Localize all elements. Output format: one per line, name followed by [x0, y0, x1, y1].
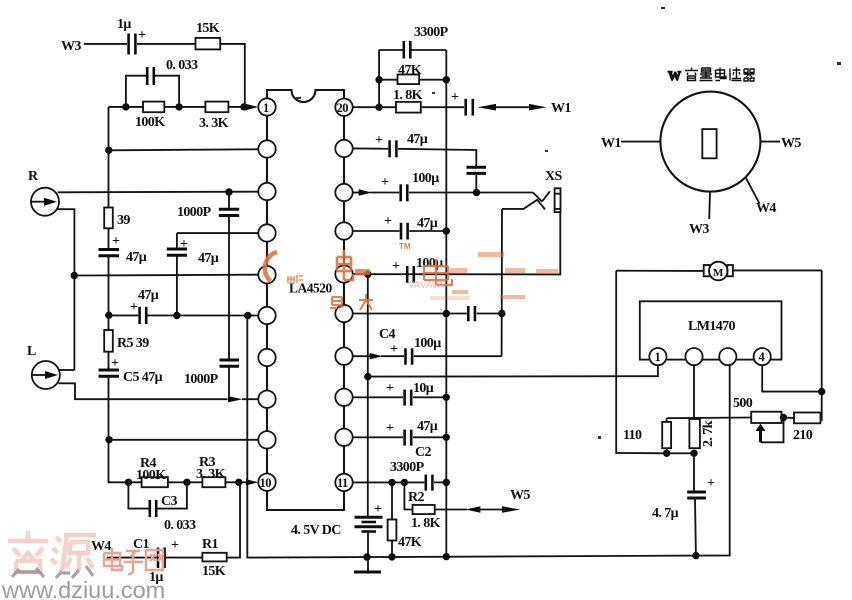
junction 47u stem on pin6 row — [173, 312, 180, 319]
junction x446 at ground — [443, 553, 450, 560]
svg-text:47K: 47K — [398, 63, 422, 78]
svg-text:+: + — [392, 259, 400, 274]
junction R4 row left — [125, 479, 132, 486]
resistor R4 100K — [128, 456, 248, 487]
svg-text:47μ: 47μ — [417, 419, 438, 434]
svg-text:W1: W1 — [601, 136, 621, 151]
svg-text:+: + — [180, 237, 188, 252]
capacitor C3 0.033 — [128, 482, 196, 533]
resistor 3.3K (top left) — [199, 102, 229, 131]
wire pin 9 row — [109, 439, 258, 441]
arrow into pin 10 — [246, 479, 258, 485]
pin 4 — [258, 224, 275, 241]
wire pin 11 row — [353, 481, 425, 483]
junction left bus pin5 — [71, 272, 78, 279]
capacitor 3300P (pin 11) — [390, 460, 446, 491]
svg-text:LA4520: LA4520 — [289, 281, 333, 296]
svg-text:1. 8K: 1. 8K — [411, 516, 441, 531]
capacitor 47u (pin 17) — [353, 214, 447, 240]
junction 3300P right — [443, 479, 450, 486]
capacitor 47u (horizontal, pin 6 row) — [105, 288, 258, 324]
svg-text:+: + — [171, 538, 179, 553]
svg-text:R5 39: R5 39 — [117, 336, 149, 351]
potentiometer 500 — [733, 396, 784, 442]
junction 47K left — [375, 76, 382, 83]
junction pin16 node (battery + rail) — [364, 271, 371, 278]
svg-text:100K: 100K — [135, 115, 165, 130]
pin 15 — [335, 305, 352, 322]
svg-text:3. 3K: 3. 3K — [196, 467, 226, 482]
resistor 1.8K (pin 20) — [393, 88, 423, 113]
svg-text:100μ: 100μ — [416, 256, 443, 271]
junction pin20 node — [375, 104, 382, 111]
resistor 47K (top) — [379, 63, 446, 84]
capacitor 1000P (lower) — [184, 360, 239, 387]
svg-text:W1: W1 — [551, 101, 571, 116]
junction R4/R3 — [183, 479, 190, 486]
pin 7 — [258, 349, 275, 366]
svg-text:500: 500 — [733, 396, 753, 411]
arrow pair to node W5 — [435, 488, 531, 513]
svg-text:2. 7k: 2. 7k — [701, 420, 716, 447]
wire jack switch down to C4 row — [501, 209, 503, 356]
pin 18 — [335, 184, 352, 201]
svg-text:100μ: 100μ — [412, 171, 439, 186]
junction battery at ground rail — [363, 553, 370, 560]
capacitor C2 47u (pin 12) — [353, 419, 447, 460]
resistor 210 — [782, 413, 822, 444]
svg-text:4. 5V DC: 4. 5V DC — [291, 523, 341, 538]
junction R2 top — [401, 479, 408, 486]
resistor 39 (R channel) — [104, 208, 130, 229]
wire 15K down to pin1 node — [220, 44, 245, 107]
wire 110 bottom row to 2.7k — [667, 452, 694, 454]
junction 47K top — [388, 479, 395, 486]
svg-text:100μ: 100μ — [414, 336, 441, 351]
arrow into pin 1 — [246, 104, 259, 111]
resistor R2 1.8K — [404, 482, 440, 531]
resistor 110 — [623, 418, 671, 453]
wire pin 20 to 1.8K node — [353, 106, 396, 108]
wire W4 to C1 — [107, 557, 157, 559]
wire pin 5 row — [74, 274, 258, 277]
pin 6 — [258, 307, 275, 324]
wire feedback row y107 — [109, 106, 245, 108]
svg-text:47K: 47K — [398, 535, 422, 550]
junction pin15 row at x502 — [498, 310, 505, 317]
op-amp U2 LM1470 box — [640, 301, 782, 359]
svg-text:10: 10 — [260, 476, 272, 490]
capacitor 3300P (top) — [379, 25, 449, 59]
svg-text:15K: 15K — [202, 564, 226, 579]
svg-text:1. 8K: 1. 8K — [393, 88, 423, 103]
resistor 100K (top left) — [135, 102, 165, 130]
svg-text:1: 1 — [655, 350, 661, 364]
capacitor 100u (pin 16) — [392, 256, 443, 283]
svg-text:+: + — [384, 214, 392, 229]
pin 13 — [335, 389, 352, 406]
battery 4.5V DC — [291, 502, 383, 557]
svg-text:100K: 100K — [136, 468, 166, 483]
junction pin1 node — [240, 103, 247, 110]
pin 5 — [258, 266, 275, 283]
junction pin17 row at x446 — [443, 227, 450, 234]
svg-text:4. 7μ: 4. 7μ — [652, 506, 679, 521]
svg-text:47μ: 47μ — [417, 216, 438, 231]
wire motor left down to resistor bottoms — [616, 271, 667, 454]
svg-text:XS: XS — [545, 169, 563, 184]
pin 1 (LM1470) — [649, 348, 666, 365]
pin 1 — [258, 98, 275, 115]
junction 4.7u at ground rail — [692, 552, 699, 559]
pin 9 — [258, 431, 275, 448]
wire left vertical x108.5 from feedback row down — [109, 107, 129, 482]
capacitor 4.7u — [652, 453, 715, 555]
wire C1u to R 15K — [137, 43, 196, 45]
svg-text:L: L — [27, 344, 36, 359]
wire R input to pin 3 — [58, 191, 259, 194]
capacitor 1u (top left) — [117, 17, 146, 55]
svg-text:W5: W5 — [781, 136, 801, 151]
svg-text:20: 20 — [337, 101, 349, 115]
scan specks — [296, 7, 841, 439]
node W3 lead — [689, 192, 710, 237]
pin 16 — [335, 265, 352, 282]
wire LM1470 pin4 to 210 right — [762, 365, 822, 391]
wire battery rail to LM1470 pin1 — [368, 274, 658, 517]
wire R lower lead down left bus — [58, 209, 75, 370]
svg-text:C3: C3 — [161, 494, 178, 509]
junction 500/210 — [780, 414, 787, 421]
arrow pair to node W1 — [478, 101, 572, 116]
junction pin12 row at x446 — [443, 434, 450, 441]
pin 19 — [335, 140, 352, 157]
svg-text:www.dziuu.com: www.dziuu.com — [1, 577, 165, 600]
junction — [122, 103, 129, 110]
svg-text:+: + — [138, 28, 146, 43]
capacitor 10u (pin 13) — [353, 381, 447, 406]
junction 47K right — [443, 76, 450, 83]
label W volume potentiometer (CJK strokes) — [668, 68, 755, 84]
svg-text:47μ: 47μ — [407, 132, 428, 147]
svg-text:15K: 15K — [196, 21, 220, 36]
pin 17 — [335, 222, 352, 239]
junction 110 bottom — [663, 450, 670, 457]
junction — [175, 103, 182, 110]
wire L lower lead to pin8 row — [59, 383, 228, 399]
wire ground drop x246.8 — [247, 316, 340, 558]
svg-text:11: 11 — [337, 476, 348, 490]
junction 47K at ground — [388, 553, 395, 560]
svg-text:47μ: 47μ — [198, 251, 219, 266]
resistor R3 3.3K — [196, 455, 226, 487]
junction rail at y376 — [364, 373, 371, 380]
pin 8 — [258, 391, 275, 408]
resistor R1 15K — [202, 537, 227, 579]
capacitor C4 100u (pin 14) — [379, 327, 502, 365]
capacitor (pin 15 row) — [353, 306, 502, 321]
svg-text:+: + — [451, 90, 459, 105]
wire W3 to C 1u — [84, 43, 127, 45]
svg-text:3. 3K: 3. 3K — [199, 116, 229, 131]
ground — [354, 557, 381, 572]
svg-text:M: M — [713, 267, 724, 279]
svg-text:+: + — [386, 381, 394, 396]
svg-text:1000P: 1000P — [184, 372, 219, 387]
capacitor 0.033 (top, parallel with 100K) — [126, 58, 198, 107]
wire C1 to R1 — [166, 557, 202, 559]
jack XS — [502, 169, 563, 212]
svg-text:W4: W4 — [756, 201, 776, 216]
capacitor C5 47u — [99, 356, 163, 385]
resistor 47K (bias) — [388, 482, 422, 556]
op-amp IC U1 LA4520 body — [267, 90, 344, 510]
capacitor to W1 — [451, 90, 473, 116]
svg-text:R1: R1 — [202, 537, 219, 552]
svg-text:W4: W4 — [91, 539, 111, 554]
svg-text:W: W — [668, 68, 681, 83]
svg-text:+: + — [390, 342, 398, 357]
capacitor 47u (pin 19) — [353, 132, 477, 166]
pin 12 — [335, 429, 352, 446]
junction pin9 row — [105, 436, 112, 443]
svg-text:TM: TM — [399, 242, 411, 251]
svg-text:0. 033: 0. 033 — [166, 58, 198, 73]
wire ground rail — [340, 365, 730, 557]
svg-text:47μ: 47μ — [138, 288, 159, 303]
wire jack sleeve down to pin16 row — [353, 212, 560, 274]
svg-text:W3: W3 — [61, 39, 81, 54]
watermark center (orange logo) — [265, 242, 558, 310]
capacitor 100u (pin 18) — [370, 171, 533, 201]
wire R1 up to pin10 node — [227, 482, 240, 557]
wire LM1470 pin2 to 2.7k — [693, 365, 695, 419]
wire motor right down to 210 — [821, 270, 823, 420]
node W4 lead — [746, 177, 777, 216]
svg-text:C5 47μ: C5 47μ — [123, 370, 163, 385]
resistor 2.7k — [689, 419, 716, 448]
svg-text:1000P: 1000P — [177, 205, 212, 220]
svg-text:3300P: 3300P — [390, 460, 425, 475]
pin 20 — [335, 99, 352, 116]
svg-text:1: 1 — [263, 101, 269, 115]
junction pin15 row at x446 — [443, 310, 450, 317]
wire x446 vertical (3300P right to ground) — [445, 50, 447, 557]
svg-text:210: 210 — [793, 428, 813, 443]
svg-text:+: + — [386, 421, 394, 436]
capacitor (pin19 node to pin18 line) — [467, 167, 487, 192]
pin 4 (LM1470) — [754, 348, 771, 365]
svg-text:0. 033: 0. 033 — [164, 518, 196, 533]
pin 11 — [335, 474, 352, 491]
arrow on pin 18 wire — [353, 189, 373, 195]
arrow into pin 8 — [228, 396, 243, 402]
pin 10 — [258, 474, 275, 491]
node L input — [27, 344, 60, 389]
svg-text:R2: R2 — [408, 490, 425, 505]
svg-text:W3: W3 — [689, 222, 709, 237]
pin 2 (LM1470) — [685, 348, 702, 365]
pin 3 (LM1470) — [719, 348, 736, 365]
capacitor C1 1u — [133, 537, 179, 585]
wire L upper lead to bus — [59, 369, 75, 371]
capacitor 47u (R channel, x108) — [99, 234, 147, 265]
junction pin10 node — [235, 479, 242, 486]
svg-text:+: + — [112, 234, 120, 249]
svg-text:110: 110 — [623, 428, 642, 443]
pin 2 — [258, 140, 275, 157]
svg-text:+: + — [707, 476, 715, 491]
pin 3 — [258, 183, 275, 200]
svg-text:1μ: 1μ — [117, 17, 131, 32]
svg-text:+: + — [374, 502, 382, 517]
resistor 15K (top) — [196, 21, 221, 49]
resistor R5 39 — [104, 330, 149, 352]
node R input — [28, 169, 59, 216]
svg-text:+: + — [375, 133, 383, 148]
svg-text:10μ: 10μ — [413, 381, 434, 396]
svg-text:LM1470: LM1470 — [688, 319, 736, 334]
svg-text:+: + — [381, 175, 389, 190]
junction pin6 row to ground drop — [244, 312, 251, 319]
node W1 lead — [601, 136, 660, 151]
junction 2.7k bottom — [690, 450, 697, 457]
capacitor 47u (to pin 4) — [167, 233, 258, 315]
wire arrow to pin 8 — [242, 398, 258, 400]
wire 110 top to 500 — [667, 417, 752, 420]
pin 14 — [335, 348, 352, 365]
svg-text:3300P: 3300P — [414, 25, 449, 40]
wire 1.8K to W1 cap — [421, 106, 464, 108]
wire x379 vertical — [378, 50, 380, 107]
svg-text:W5: W5 — [510, 488, 530, 503]
potentiometer W (volume) circle — [660, 92, 760, 192]
motor M — [616, 262, 822, 281]
junction pin13 row at x446 — [443, 394, 450, 401]
wire to pin 2 — [109, 149, 258, 150]
junction pin2 line — [105, 147, 112, 154]
svg-text:39: 39 — [117, 213, 130, 228]
svg-text:R: R — [28, 169, 39, 184]
node W5 lead — [760, 136, 801, 151]
svg-text:C4: C4 — [379, 327, 396, 342]
arrow on pin 14 wire — [353, 353, 383, 359]
svg-text:+: + — [130, 300, 138, 315]
junction pin4 wire at motor drop — [818, 388, 825, 395]
capacitor 1000P (upper) — [177, 188, 239, 399]
svg-text:VAVAVA: VAVAVA — [408, 280, 445, 291]
junction cap stem on pin18 line — [473, 189, 480, 196]
svg-text:C2: C2 — [415, 445, 432, 460]
watermark bottom-left (logo and url) — [1, 531, 165, 600]
svg-text:+: + — [111, 356, 119, 371]
svg-text:47μ: 47μ — [126, 250, 147, 265]
